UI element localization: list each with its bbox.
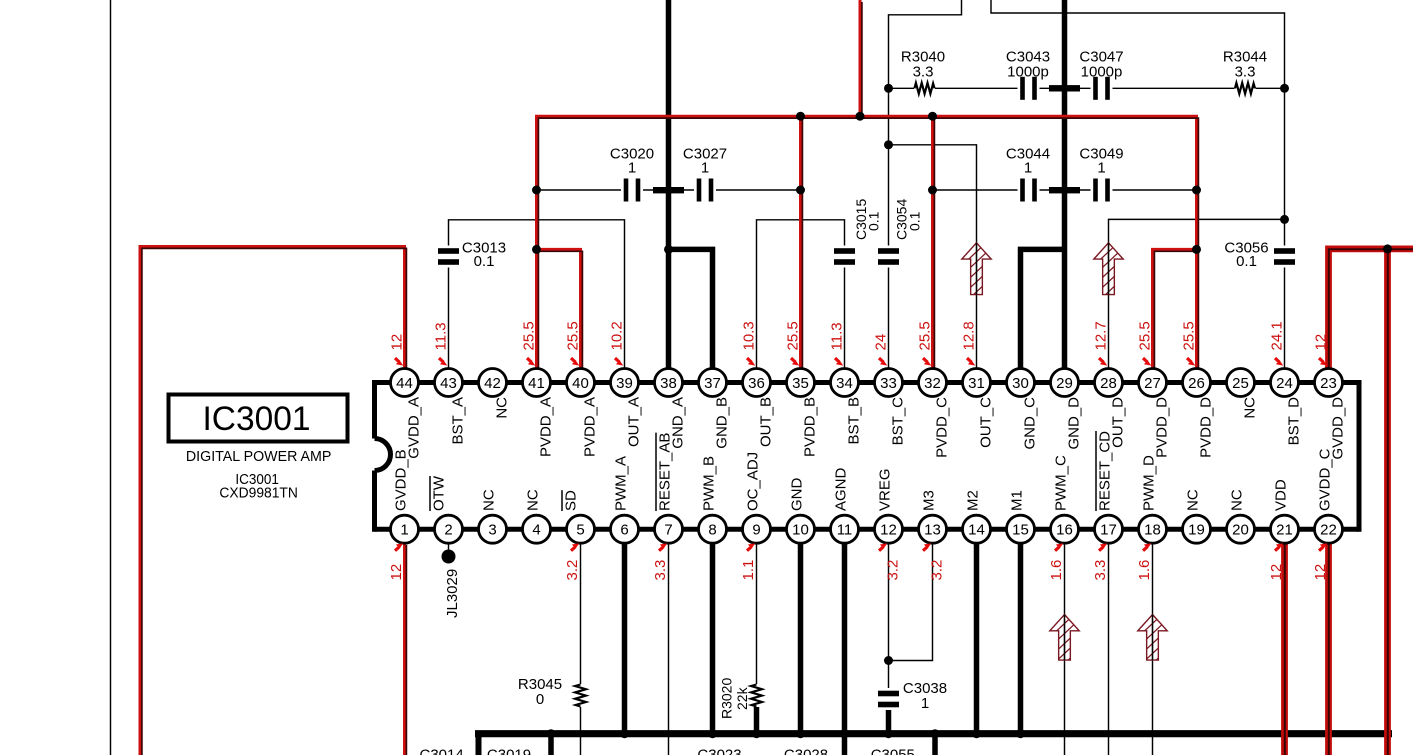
- svg-text:NC: NC: [494, 397, 511, 419]
- wire bootstrap B: pin36 OUT_B up-right-down to pin34 BST_B: [757, 220, 845, 370]
- pin 3: [479, 515, 507, 543]
- pin 32: [919, 369, 947, 397]
- red wire pin21 VDD down: [1281, 543, 1288, 755]
- pin 22: [1315, 515, 1343, 543]
- wire bootstrap C: pin33 BST_C up to top edge pigtail: [889, 0, 962, 370]
- svg-text:3.2: 3.2: [885, 560, 902, 581]
- pin 12: [875, 515, 903, 543]
- thick wire pin29 GND_D from top edge: [1062, 0, 1068, 370]
- pin 30: [1007, 369, 1035, 397]
- svg-text:C3023: C3023: [697, 747, 741, 755]
- svg-text:32: 32: [924, 375, 941, 392]
- pin 29: [1051, 369, 1079, 397]
- jumper JL3029 dot: [442, 550, 456, 564]
- svg-text:C3055: C3055: [871, 747, 915, 755]
- svg-text:20: 20: [1232, 522, 1249, 539]
- wire node C to pin31 OUT_C: [889, 145, 977, 370]
- svg-text:16: 16: [1056, 522, 1073, 539]
- capacitor C3056: [1273, 246, 1297, 268]
- svg-text:AGND: AGND: [833, 467, 850, 511]
- svg-text:1: 1: [1024, 160, 1032, 177]
- pin 41: [523, 369, 551, 397]
- red wire PVDD bus: pin41 up, across, down to pin26: [537, 116, 1197, 370]
- thick stub GND_A at cap row: [653, 187, 684, 193]
- svg-text:22: 22: [1320, 522, 1337, 539]
- pin 4: [523, 515, 551, 543]
- svg-text:NC: NC: [525, 489, 542, 511]
- svg-text:0: 0: [536, 691, 544, 708]
- red wire GVDD_D right: from right edge to pin23: [1329, 249, 1413, 370]
- pin 5: [567, 515, 595, 543]
- red wire pin22 GVDD_C down: [1325, 543, 1332, 755]
- red branch to pin35 PVDD_B: [799, 116, 802, 370]
- pin 33: [875, 369, 903, 397]
- svg-text:24: 24: [1276, 375, 1293, 392]
- thick stub GND_D at RC row: [1049, 85, 1080, 91]
- svg-text:R3020: R3020: [719, 678, 735, 719]
- svg-text:24: 24: [873, 334, 890, 351]
- svg-text:PVDD_D: PVDD_D: [1198, 397, 1215, 458]
- junction PVDD/pin32: [928, 112, 937, 121]
- pin 44: [391, 369, 419, 397]
- svg-text:PVDD_A: PVDD_A: [582, 397, 599, 457]
- svg-text:VREG: VREG: [877, 468, 894, 511]
- resistor R3040: [914, 81, 935, 95]
- junction bus x=624: [620, 729, 629, 738]
- resistor R3020: [750, 684, 764, 707]
- svg-text:33: 33: [880, 375, 897, 392]
- capacitor C3043: [1018, 76, 1040, 101]
- svg-text:2: 2: [444, 522, 452, 539]
- svg-text:18: 18: [1144, 522, 1161, 539]
- svg-text:10.2: 10.2: [609, 321, 626, 350]
- junction bus x=976: [972, 729, 981, 738]
- svg-text:BST_A: BST_A: [450, 397, 467, 445]
- wire bootstrap D horizontal to pin28 OUT_D: [1109, 219, 1285, 370]
- pin 16: [1051, 515, 1079, 543]
- thick wire pin8 PWM_B to bus: [710, 543, 716, 734]
- svg-text:PVDD_D: PVDD_D: [1154, 397, 1171, 458]
- svg-text:3.3: 3.3: [913, 64, 934, 81]
- svg-text:M3: M3: [921, 490, 938, 511]
- pin 17: [1095, 515, 1123, 543]
- wire pin13 M3 down-left to VREG node: [889, 543, 933, 661]
- svg-text:0.1: 0.1: [866, 211, 882, 231]
- junction bus x=1020: [1016, 729, 1025, 738]
- pin 27: [1139, 369, 1167, 397]
- svg-text:OUT_C: OUT_C: [978, 397, 995, 448]
- svg-text:GVDD_C: GVDD_C: [1317, 448, 1334, 511]
- junction C3027 right: [796, 186, 805, 195]
- svg-text:41: 41: [528, 375, 545, 392]
- pin 31: [963, 369, 991, 397]
- junction node C: [884, 140, 893, 149]
- svg-text:25.5: 25.5: [521, 321, 538, 350]
- svg-text:PVDD_C: PVDD_C: [934, 397, 951, 458]
- svg-text:NC: NC: [1185, 489, 1202, 511]
- svg-text:31: 31: [968, 375, 985, 392]
- svg-text:19: 19: [1188, 522, 1205, 539]
- ground bus horizontal: [475, 730, 1392, 737]
- svg-text:21: 21: [1276, 522, 1293, 539]
- red branch to pin40 PVDD_A: [537, 249, 581, 370]
- pin 10: [787, 515, 815, 543]
- svg-text:C3028: C3028: [784, 747, 828, 755]
- red wire pin1 GVDD_B down: [403, 543, 406, 755]
- junction node D: [1280, 215, 1289, 224]
- pin 13: [919, 515, 947, 543]
- svg-text:12: 12: [1268, 564, 1285, 581]
- pin 36: [743, 369, 771, 397]
- resistor R3044: [1235, 81, 1256, 95]
- thick wire pin14 M2 to bus: [974, 543, 980, 734]
- junction far right red: [1383, 244, 1392, 253]
- svg-text:JL3029: JL3029: [444, 569, 461, 618]
- svg-text:OC_ADJ: OC_ADJ: [745, 452, 762, 511]
- junction bus x=551: [547, 729, 556, 738]
- junction bus x=888: [884, 729, 893, 738]
- junction GND_A/GND_B: [664, 245, 673, 254]
- pin 42: [479, 369, 507, 397]
- pin 43: [435, 369, 463, 397]
- IC3001 body outline: [372, 380, 377, 439]
- svg-text:13: 13: [924, 522, 941, 539]
- wire top-right pigtail down to node D: [991, 0, 1285, 219]
- svg-text:RESET_CD: RESET_CD: [1097, 431, 1114, 511]
- svg-text:1: 1: [701, 160, 709, 177]
- wire below bus C3019: [548, 734, 554, 755]
- svg-text:12: 12: [1313, 334, 1330, 351]
- svg-text:17: 17: [1100, 522, 1117, 539]
- svg-text:GND_B: GND_B: [714, 397, 731, 449]
- wire pin18 PWM_D down across bus: [1152, 543, 1154, 755]
- svg-text:PWM_B: PWM_B: [701, 456, 718, 511]
- pin 34: [831, 369, 859, 397]
- svg-text:11.3: 11.3: [829, 322, 846, 350]
- svg-text:25.5: 25.5: [1137, 321, 1154, 350]
- junction VREG/M3: [884, 656, 893, 665]
- svg-text:3.2: 3.2: [564, 560, 581, 581]
- capacitor C3013: [437, 246, 461, 268]
- svg-text:23: 23: [1320, 375, 1337, 392]
- thick wire pin6 PWM_A to bus: [622, 543, 628, 734]
- svg-text:PVDD_A: PVDD_A: [538, 397, 555, 457]
- svg-text:SD: SD: [563, 490, 580, 511]
- svg-text:36: 36: [748, 375, 765, 392]
- svg-text:10: 10: [792, 522, 809, 539]
- red wire from top edge: [859, 0, 862, 116]
- svg-text:5: 5: [576, 522, 584, 539]
- svg-text:VDD: VDD: [1273, 479, 1290, 511]
- pin 6: [611, 515, 639, 543]
- svg-text:7: 7: [664, 522, 672, 539]
- svg-text:25.5: 25.5: [1181, 321, 1198, 350]
- svg-text:15: 15: [1012, 522, 1029, 539]
- svg-text:43: 43: [440, 375, 457, 392]
- junction C3049 right: [1192, 186, 1201, 195]
- svg-text:GVDD_B: GVDD_B: [393, 449, 410, 511]
- svg-text:27: 27: [1144, 375, 1161, 392]
- thick stub C3038 to bus: [886, 704, 892, 734]
- pin 26: [1183, 369, 1211, 397]
- junction bus x=935: [931, 729, 940, 738]
- svg-text:11: 11: [837, 522, 853, 539]
- capacitor C3044: [1018, 178, 1040, 203]
- junction R3040 left: [884, 84, 893, 93]
- svg-text:6: 6: [620, 522, 628, 539]
- svg-text:9: 9: [752, 522, 760, 539]
- wire C3056 branch down to pin24 BST_D: [1284, 219, 1286, 370]
- svg-text:M2: M2: [965, 490, 982, 511]
- wire pin2 to jumper JL3029: [448, 543, 450, 556]
- wire pin12 VREG down to C3038: [888, 543, 890, 704]
- wire pin9 OC_ADJ down to R3020: [756, 543, 758, 706]
- svg-text:25.5: 25.5: [565, 321, 582, 350]
- pin 20: [1227, 515, 1255, 543]
- svg-text:26: 26: [1188, 375, 1205, 392]
- pin 15: [1007, 515, 1035, 543]
- junction PVDD branch pins40: [532, 245, 541, 254]
- pin 11: [831, 515, 859, 543]
- svg-text:PWM_D: PWM_D: [1141, 455, 1158, 511]
- svg-text:37: 37: [704, 375, 721, 392]
- svg-text:25.5: 25.5: [785, 321, 802, 350]
- pin 38: [655, 369, 683, 397]
- svg-text:1: 1: [921, 695, 929, 712]
- svg-text:24.1: 24.1: [1269, 321, 1286, 350]
- svg-text:35: 35: [792, 375, 809, 392]
- pin 28: [1095, 369, 1123, 397]
- svg-text:12: 12: [388, 564, 405, 581]
- svg-text:BST_C: BST_C: [890, 397, 907, 446]
- capacitor C3047: [1091, 76, 1113, 101]
- svg-text:PWM_C: PWM_C: [1053, 455, 1070, 511]
- svg-text:M1: M1: [1009, 490, 1026, 511]
- junction C3020 left: [532, 186, 541, 195]
- svg-text:GND_C: GND_C: [1022, 397, 1039, 450]
- svg-text:1.1: 1.1: [740, 560, 757, 581]
- wire cap row C3020/C3027: [537, 189, 801, 191]
- svg-text:PWM_A: PWM_A: [613, 456, 630, 511]
- bus left end corner down: [476, 731, 482, 755]
- pin 9: [743, 515, 771, 543]
- svg-text:1.6: 1.6: [1136, 560, 1153, 581]
- junction bus x=844: [840, 729, 849, 738]
- svg-text:14: 14: [968, 522, 985, 539]
- svg-text:NC: NC: [481, 489, 498, 511]
- red wire branch down at far right: [1384, 249, 1391, 755]
- svg-text:1000p: 1000p: [1081, 64, 1123, 81]
- junction bus x=756: [752, 729, 761, 738]
- svg-text:0.1: 0.1: [1236, 253, 1257, 270]
- svg-text:3: 3: [488, 522, 496, 539]
- svg-text:25: 25: [1232, 375, 1249, 392]
- svg-text:C3019: C3019: [487, 747, 531, 755]
- svg-text:OTW: OTW: [431, 475, 448, 511]
- svg-text:12.8: 12.8: [961, 321, 978, 350]
- page border line: [110, 0, 112, 755]
- wire pin17 RESET_CD down across bus: [1108, 543, 1110, 755]
- junction bus x=800: [796, 729, 805, 738]
- wire cap row C3044/C3049: [933, 189, 1197, 191]
- svg-text:44: 44: [396, 375, 413, 392]
- wire bootstrap A: pin43 BST_A up-right-down to pin39 OUT_A: [449, 220, 625, 370]
- pin 23: [1315, 369, 1343, 397]
- pin 14: [963, 515, 991, 543]
- svg-text:40: 40: [572, 375, 589, 392]
- svg-text:BST_D: BST_D: [1286, 397, 1303, 446]
- junction R3044 right: [1280, 84, 1289, 93]
- pin 19: [1183, 515, 1211, 543]
- svg-text:BST_B: BST_B: [846, 397, 863, 445]
- red branch to pin32 PVDD_C: [931, 116, 934, 370]
- wire pin16 PWM_C down across bus: [1064, 543, 1066, 755]
- svg-text:3.3: 3.3: [1235, 64, 1256, 81]
- svg-text:RESET_AB: RESET_AB: [657, 433, 674, 511]
- pin 40: [567, 369, 595, 397]
- thick wire pin15 M1 to bus: [1018, 543, 1024, 734]
- svg-text:8: 8: [708, 522, 716, 539]
- svg-text:25.5: 25.5: [917, 321, 934, 350]
- svg-text:12: 12: [880, 522, 897, 539]
- pin 25: [1227, 369, 1255, 397]
- junction PVDD/top red: [856, 112, 865, 121]
- thick wire pin11 AGND across bus: [842, 543, 848, 755]
- svg-text:0.1: 0.1: [474, 253, 495, 270]
- svg-text:22k: 22k: [734, 686, 750, 710]
- pin 8: [699, 515, 727, 543]
- capacitor C3038: [877, 688, 901, 710]
- pin 35: [787, 369, 815, 397]
- svg-text:GND: GND: [789, 478, 806, 512]
- thick wire pin38 GND_A from top edge: [666, 0, 672, 370]
- svg-text:CXD9981TN: CXD9981TN: [219, 485, 298, 502]
- thick stub R3020 to bus: [754, 705, 760, 734]
- capacitor C3020: [621, 178, 643, 203]
- svg-text:30: 30: [1012, 375, 1029, 392]
- svg-text:10.3: 10.3: [741, 321, 758, 350]
- pin 21: [1271, 515, 1299, 543]
- svg-text:NC: NC: [1242, 397, 1259, 419]
- svg-text:DIGITAL POWER AMP: DIGITAL POWER AMP: [186, 448, 332, 465]
- junction bus x=712: [708, 729, 717, 738]
- capacitor C3054: [877, 246, 901, 268]
- svg-text:3.3: 3.3: [652, 560, 669, 581]
- wire below bus C3055: [932, 734, 938, 755]
- thick stub GND_D at cap row 2: [1049, 187, 1080, 193]
- svg-text:0.1: 0.1: [907, 211, 923, 231]
- pin 37: [699, 369, 727, 397]
- svg-text:4: 4: [532, 522, 540, 539]
- capacitor C3027: [694, 178, 716, 203]
- svg-text:1: 1: [628, 160, 636, 177]
- svg-text:12: 12: [1312, 564, 1329, 581]
- capacitor C3049: [1091, 178, 1113, 203]
- capacitor C3015: [833, 246, 857, 268]
- svg-text:3.2: 3.2: [929, 560, 946, 581]
- svg-text:1000p: 1000p: [1007, 64, 1049, 81]
- wire pin5 SD down across bus: [580, 543, 582, 755]
- junction PVDD branch pin27: [1192, 245, 1201, 254]
- svg-text:GND_D: GND_D: [1066, 397, 1083, 450]
- svg-text:42: 42: [484, 375, 501, 392]
- junction PVDD/pin35: [796, 112, 805, 121]
- svg-text:OUT_A: OUT_A: [626, 397, 643, 447]
- pin 7: [655, 515, 683, 543]
- thick wire pin30 GND_C up to GND_D: [1021, 249, 1065, 370]
- pin 39: [611, 369, 639, 397]
- pin 2: [435, 515, 463, 543]
- thick wire pin10 GND to bus: [798, 543, 804, 734]
- red wire GVDD_A loop: left vertical + to pin44: [140, 247, 405, 755]
- svg-text:34: 34: [836, 375, 853, 392]
- svg-text:1.6: 1.6: [1048, 560, 1065, 581]
- svg-text:11.3: 11.3: [433, 322, 450, 350]
- svg-text:PVDD_B: PVDD_B: [802, 397, 819, 457]
- svg-text:39: 39: [616, 375, 633, 392]
- thick wire GND_A to pin37 GND_B: [669, 249, 713, 370]
- IC3001 designation box: [169, 395, 348, 442]
- pin 18: [1139, 515, 1167, 543]
- svg-text:3.3: 3.3: [1092, 560, 1109, 581]
- svg-text:1: 1: [1097, 160, 1105, 177]
- svg-text:12.7: 12.7: [1093, 321, 1110, 350]
- wire RC row 1 horizontal: [889, 87, 1285, 89]
- svg-text:IC3001: IC3001: [203, 400, 311, 438]
- svg-text:12: 12: [389, 334, 406, 351]
- resistor R3045: [574, 684, 588, 707]
- pin 24: [1271, 369, 1299, 397]
- svg-text:29: 29: [1056, 375, 1073, 392]
- svg-text:38: 38: [660, 375, 677, 392]
- svg-text:1: 1: [400, 522, 408, 539]
- wire pin7 RESET_AB down across bus: [668, 543, 670, 755]
- svg-text:NC: NC: [1229, 489, 1246, 511]
- red branch to pin27 PVDD_D: [1153, 249, 1197, 370]
- pin 1: [391, 515, 419, 543]
- svg-text:OUT_B: OUT_B: [758, 397, 775, 447]
- svg-text:28: 28: [1100, 375, 1117, 392]
- junction C3044 left: [928, 186, 937, 195]
- svg-text:C3014: C3014: [419, 747, 463, 755]
